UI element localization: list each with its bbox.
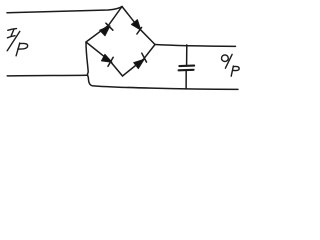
wire top output (right node to O/P terminal) [155, 45, 236, 47]
diode D3 lower-left (left node to bottom node) [86, 42, 123, 76]
capacitor C1 [179, 45, 195, 89]
net label I/P [7, 29, 27, 56]
diode D2 upper-right (top node to right node) [122, 7, 155, 45]
diode D1 upper-left (left node to top node) [86, 7, 122, 43]
wire bottom input (left rail to bridge left node) [7, 74, 87, 77]
wire top input (left rail to bridge top node) [7, 7, 122, 13]
diode D4 lower-right (bottom node to right node) [123, 45, 156, 77]
wire left-vertex vertical into bottom rail [86, 42, 238, 89]
net label O/P [222, 54, 240, 76]
